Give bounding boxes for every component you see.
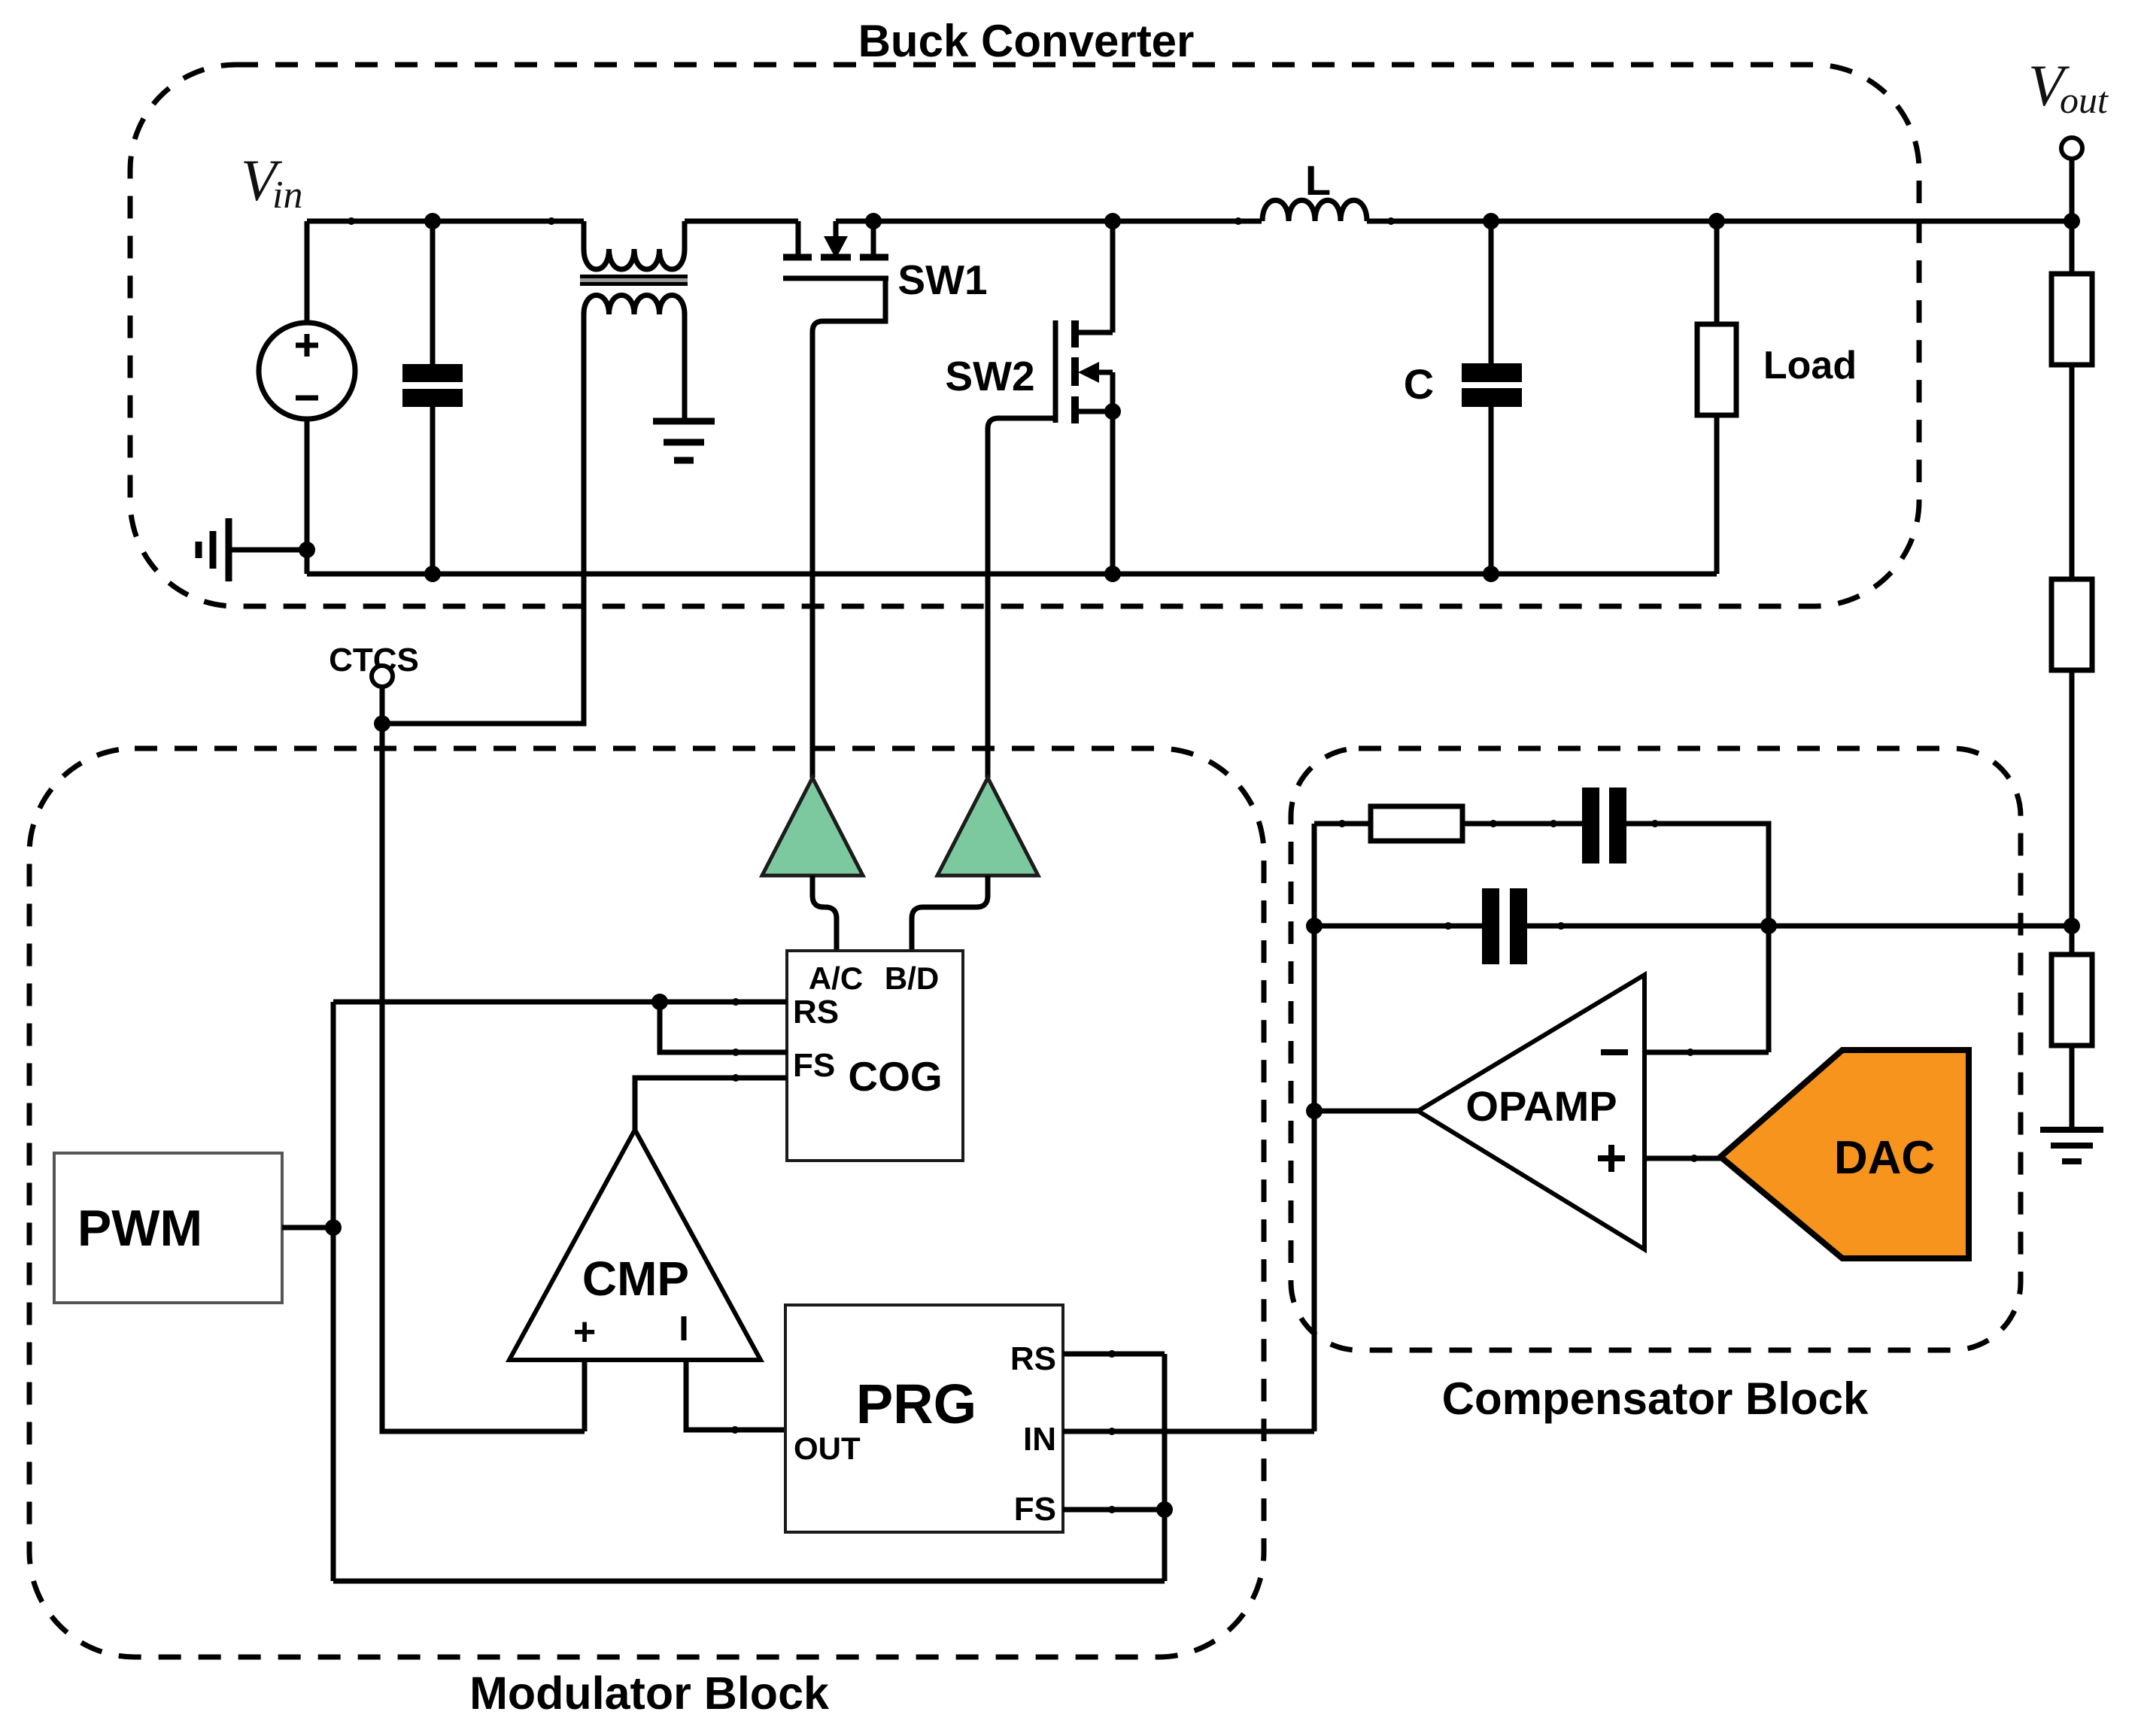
junction: Cin top <box>424 213 441 229</box>
label C <box>1404 360 1434 408</box>
label SW1 <box>897 256 987 303</box>
svg-text:out: out <box>2060 79 2109 121</box>
wire: PRG IN to compensator output <box>1063 1429 1314 1434</box>
wire: node to OPAMP input tip <box>1314 1109 1418 1114</box>
wire: top rail transformer to SW1 source <box>685 219 798 224</box>
svg-text:A/C: A/C <box>809 961 863 996</box>
wire: feedback top branch left <box>1314 821 1371 827</box>
wire: clock rail vertical <box>331 1002 336 1581</box>
pin B/D label <box>885 961 939 996</box>
pin minus label (OPAMP) <box>1601 1049 1628 1055</box>
wire: R3 to ground <box>2070 1046 2075 1130</box>
wire: CMP output to COG <box>635 1078 787 1130</box>
transformer T1 (current sense) primary winding <box>584 221 685 269</box>
wire: PRG FS to clock rail <box>1063 1507 1165 1513</box>
svg-text:DAC: DAC <box>1834 1132 1935 1184</box>
pin plus label (CMP) <box>573 1310 596 1354</box>
block PWM <box>54 1153 282 1303</box>
wire: top rail SW1 drain to inductor L <box>836 219 1262 224</box>
block U-COG <box>787 951 963 1161</box>
pin FS label (COG) <box>793 1047 835 1084</box>
svg-text:Load: Load <box>1763 344 1857 387</box>
wire: mid branch to Cf2 <box>1314 924 1482 929</box>
wire: transformer secondary right lead to ground <box>682 312 688 421</box>
junction: divider tap to compensator <box>2064 918 2080 934</box>
junction: SW1 drain on top rail <box>865 213 882 229</box>
svg-text:SW1: SW1 <box>897 256 987 303</box>
junction: Vout on output rail <box>2064 213 2080 229</box>
buffer driver B (gate driver, green) <box>937 778 1038 876</box>
junction: C bottom <box>1483 566 1499 582</box>
capacitor Cin <box>402 221 463 574</box>
resistor R1 (divider top) <box>2051 274 2092 365</box>
svg-text:PRG: PRG <box>856 1373 976 1435</box>
svg-text:OPAMP: OPAMP <box>1465 1082 1617 1130</box>
label CMP <box>582 1252 689 1306</box>
ground (transformer secondary) <box>653 421 715 460</box>
label PRG <box>856 1373 976 1435</box>
pin minus label (CMP) <box>682 1316 687 1340</box>
wire: SW1 gate to driver A <box>812 278 885 778</box>
svg-text:FS: FS <box>793 1047 835 1084</box>
svg-text:PWM: PWM <box>77 1200 202 1257</box>
ground (divider) <box>2040 1130 2103 1161</box>
wire: OPAMP minus feedback <box>1644 1050 1769 1055</box>
svg-text:CMP: CMP <box>582 1252 689 1306</box>
node Vout label <box>2028 53 2109 121</box>
pin IN label (PRG) <box>1023 1421 1056 1458</box>
capacitor C (output) <box>1462 221 1522 574</box>
svg-text:COG: COG <box>848 1053 942 1100</box>
label Load <box>1763 344 1857 387</box>
wire: Rf to Cf1 <box>1462 821 1582 827</box>
svg-text:FS: FS <box>1014 1491 1056 1528</box>
wire: compensator input vertical <box>1312 824 1317 1431</box>
wire: R2 to divider tap <box>2070 670 2075 954</box>
junction: PRG FS tie <box>1156 1501 1173 1518</box>
junction: SW2 source on bottom rail <box>1104 566 1121 582</box>
label: Modulator Block title <box>469 1668 829 1719</box>
svg-text:in: in <box>272 174 302 217</box>
wire: clock rail up to PRG RS <box>1162 1354 1168 1581</box>
block PRG <box>785 1305 1063 1532</box>
junction: SW2 drain on top rail <box>1104 213 1121 229</box>
dashed block boundary: Modulator Block <box>29 748 1264 1657</box>
junction: C top <box>1483 213 1499 229</box>
label L <box>1305 156 1331 204</box>
junction: RS-FS tap <box>651 994 668 1010</box>
pin RS label (COG) <box>793 994 839 1030</box>
voltage source V_in <box>259 221 355 574</box>
resistor Load <box>1697 221 1736 574</box>
transformer T1 core <box>580 277 688 284</box>
comparator CMP <box>509 1130 761 1360</box>
svg-text:IN: IN <box>1023 1421 1056 1458</box>
label OPAMP <box>1465 1082 1617 1130</box>
svg-text:Buck Converter: Buck Converter <box>858 16 1195 66</box>
terminal Vout <box>2061 138 2082 221</box>
buffer driver A (gate driver, green) <box>762 778 863 876</box>
wire: PWM rail to COG RS <box>333 1000 787 1005</box>
svg-text:RS: RS <box>793 994 839 1030</box>
wire: OPAMP plus to DAC <box>1644 1156 1720 1161</box>
pin plus label (OPAMP) <box>1598 1145 1625 1172</box>
pin A/C label <box>809 961 863 996</box>
wire: clock rail bottom run <box>333 1579 1165 1584</box>
wire: driver B output to COG B/D <box>912 876 988 951</box>
junction: PWM output node <box>325 1219 342 1236</box>
label: Buck Converter title <box>858 16 1195 66</box>
DAC (reference, orange) <box>1720 1050 1969 1258</box>
resistor Rf (feedback) <box>1371 806 1462 841</box>
transistor SW2 (NMOS low-side switch) <box>1055 221 1113 574</box>
wire: R1 to R2 <box>2070 365 2075 579</box>
capacitor Cf1 (feedback series) <box>1582 788 1626 863</box>
pin RS label (PRG) <box>1010 1340 1056 1377</box>
svg-text:RS: RS <box>1010 1340 1056 1377</box>
dashed block boundary: Buck Converter <box>130 65 1919 606</box>
junction: SW2 source-body tie <box>1104 403 1121 420</box>
wire: Vout to R1 <box>2070 221 2075 274</box>
svg-text:C: C <box>1404 360 1434 408</box>
svg-text:Modulator Block: Modulator Block <box>469 1668 829 1719</box>
wire: Cf2 to Vout divider tap <box>1527 924 2072 929</box>
transformer T1 secondary winding <box>584 296 685 315</box>
junction: OPAMP inverting node <box>1306 1103 1323 1119</box>
resistor R3 (divider bottom) <box>2051 954 2092 1046</box>
junction: CTCS node <box>374 715 390 732</box>
wire: Cf1 to feedback right vertical <box>1626 824 1769 1052</box>
label PWM <box>77 1200 202 1257</box>
junction: mid branch left <box>1306 918 1323 934</box>
wire: CMP plus input stub <box>582 1360 588 1431</box>
capacitor Cf2 (parallel feedback) <box>1482 888 1527 964</box>
dashed block boundary: Compensator Block <box>1291 748 2021 1350</box>
ground (input, left) <box>199 518 307 581</box>
pin FS label (PRG) <box>1014 1491 1056 1528</box>
label DAC <box>1834 1132 1935 1184</box>
junction: feedback verticals cross <box>1760 918 1777 934</box>
op-amp OPAMP <box>1418 975 1644 1249</box>
label: Compensator Block title <box>1442 1373 1869 1424</box>
wire: PRG RS to clock rail <box>1063 1352 1165 1357</box>
svg-text:SW2: SW2 <box>945 353 1034 399</box>
wire: driver A output to COG A/C <box>812 876 837 951</box>
svg-text:B/D: B/D <box>885 961 939 996</box>
junction: Cin bottom <box>424 566 441 582</box>
wire: top rail inductor L to Vout node <box>1367 219 2072 224</box>
resistor R2 (divider middle) <box>2051 579 2092 670</box>
junction: ground to source lead <box>299 542 315 558</box>
wire: PWM output <box>282 1225 333 1231</box>
pin OUT label (PRG) <box>794 1431 861 1466</box>
transistor SW1 (PMOS high-side switch) <box>783 221 888 278</box>
svg-text:L: L <box>1305 156 1331 204</box>
svg-text:+: + <box>573 1310 596 1354</box>
wire: CMP minus input to PRG OUT <box>686 1360 785 1430</box>
label SW2 <box>945 353 1034 399</box>
wire: CTCS down to CMP plus input <box>382 724 585 1431</box>
inductor L <box>1262 200 1367 221</box>
svg-text:OUT: OUT <box>794 1431 861 1466</box>
wire: SW2 gate to driver B <box>988 418 1055 778</box>
label COG <box>848 1053 942 1100</box>
node Vin label <box>241 147 302 217</box>
junction: Load top <box>1708 213 1725 229</box>
wire: tap down to COG FS <box>660 1002 787 1052</box>
terminal CTCS <box>372 666 393 724</box>
node CTCS label <box>329 642 419 678</box>
wire: top rail Vin to transformer <box>307 219 584 224</box>
wire: CTCS sense lead from secondary <box>382 312 584 724</box>
svg-text:Compensator Block: Compensator Block <box>1442 1373 1869 1424</box>
pin tick marks on wires <box>348 217 1698 1513</box>
wire: bottom return rail <box>307 572 1717 577</box>
